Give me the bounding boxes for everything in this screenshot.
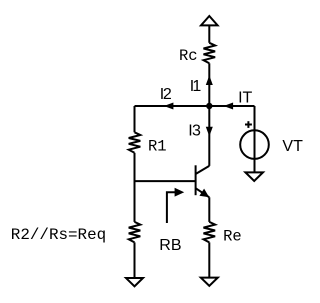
- wire VCC to Rc: [208, 25, 210, 43]
- node A junction dot: [206, 103, 212, 109]
- wire emitter to Re: [208, 197, 210, 222]
- source VT circle: [240, 130, 269, 159]
- wire node A to right corner: [209, 105, 254, 107]
- svg-text:I1: I1: [190, 78, 202, 95]
- resistor Re: [204, 222, 216, 243]
- svg-text:Re: Re: [223, 227, 242, 245]
- VCC up-arrow symbol: [201, 16, 218, 25]
- ground (left): [126, 278, 143, 286]
- current arrow I2 (left): [164, 103, 174, 110]
- transistor Q1 base bar: [195, 165, 197, 195]
- current arrow I1 (up): [206, 75, 213, 85]
- svg-text:R1: R1: [148, 137, 167, 155]
- ground (below Re): [201, 278, 218, 286]
- svg-text:I3: I3: [188, 123, 201, 140]
- svg-text:R2//Rs=Req: R2//Rs=Req: [11, 226, 106, 244]
- svg-text:I2: I2: [160, 86, 172, 103]
- ground (below VT): [245, 172, 263, 181]
- transistor Q1 collector lead: [196, 166, 210, 174]
- transistor Q1 emitter arrowhead: [199, 189, 209, 198]
- plus sign: [245, 124, 252, 126]
- RB pointer arrow: [167, 192, 176, 223]
- resistor R1: [129, 132, 141, 153]
- current arrow IT (left): [224, 103, 234, 110]
- resistor R2//Rs: [129, 222, 141, 243]
- svg-text:RB: RB: [159, 237, 181, 254]
- current arrow I3 (down): [206, 127, 213, 137]
- wire node A to left corner: [135, 105, 210, 107]
- wire Re to ground: [208, 242, 210, 277]
- wire right corner down through source: [254, 106, 256, 172]
- wire node A to collector: [208, 106, 210, 166]
- svg-text:Rc: Rc: [179, 47, 198, 65]
- wire Rc to node A: [208, 63, 210, 106]
- wire left corner down to R1: [134, 106, 136, 132]
- wire base tap to base bar: [135, 180, 196, 182]
- resistor Rc: [204, 43, 216, 64]
- wire R2 to ground: [134, 242, 136, 278]
- wire R1 down past base tap to R2: [134, 153, 136, 222]
- svg-text:VT: VT: [282, 138, 303, 155]
- transistor Q1 emitter lead: [196, 188, 210, 197]
- svg-text:IT: IT: [238, 90, 252, 107]
